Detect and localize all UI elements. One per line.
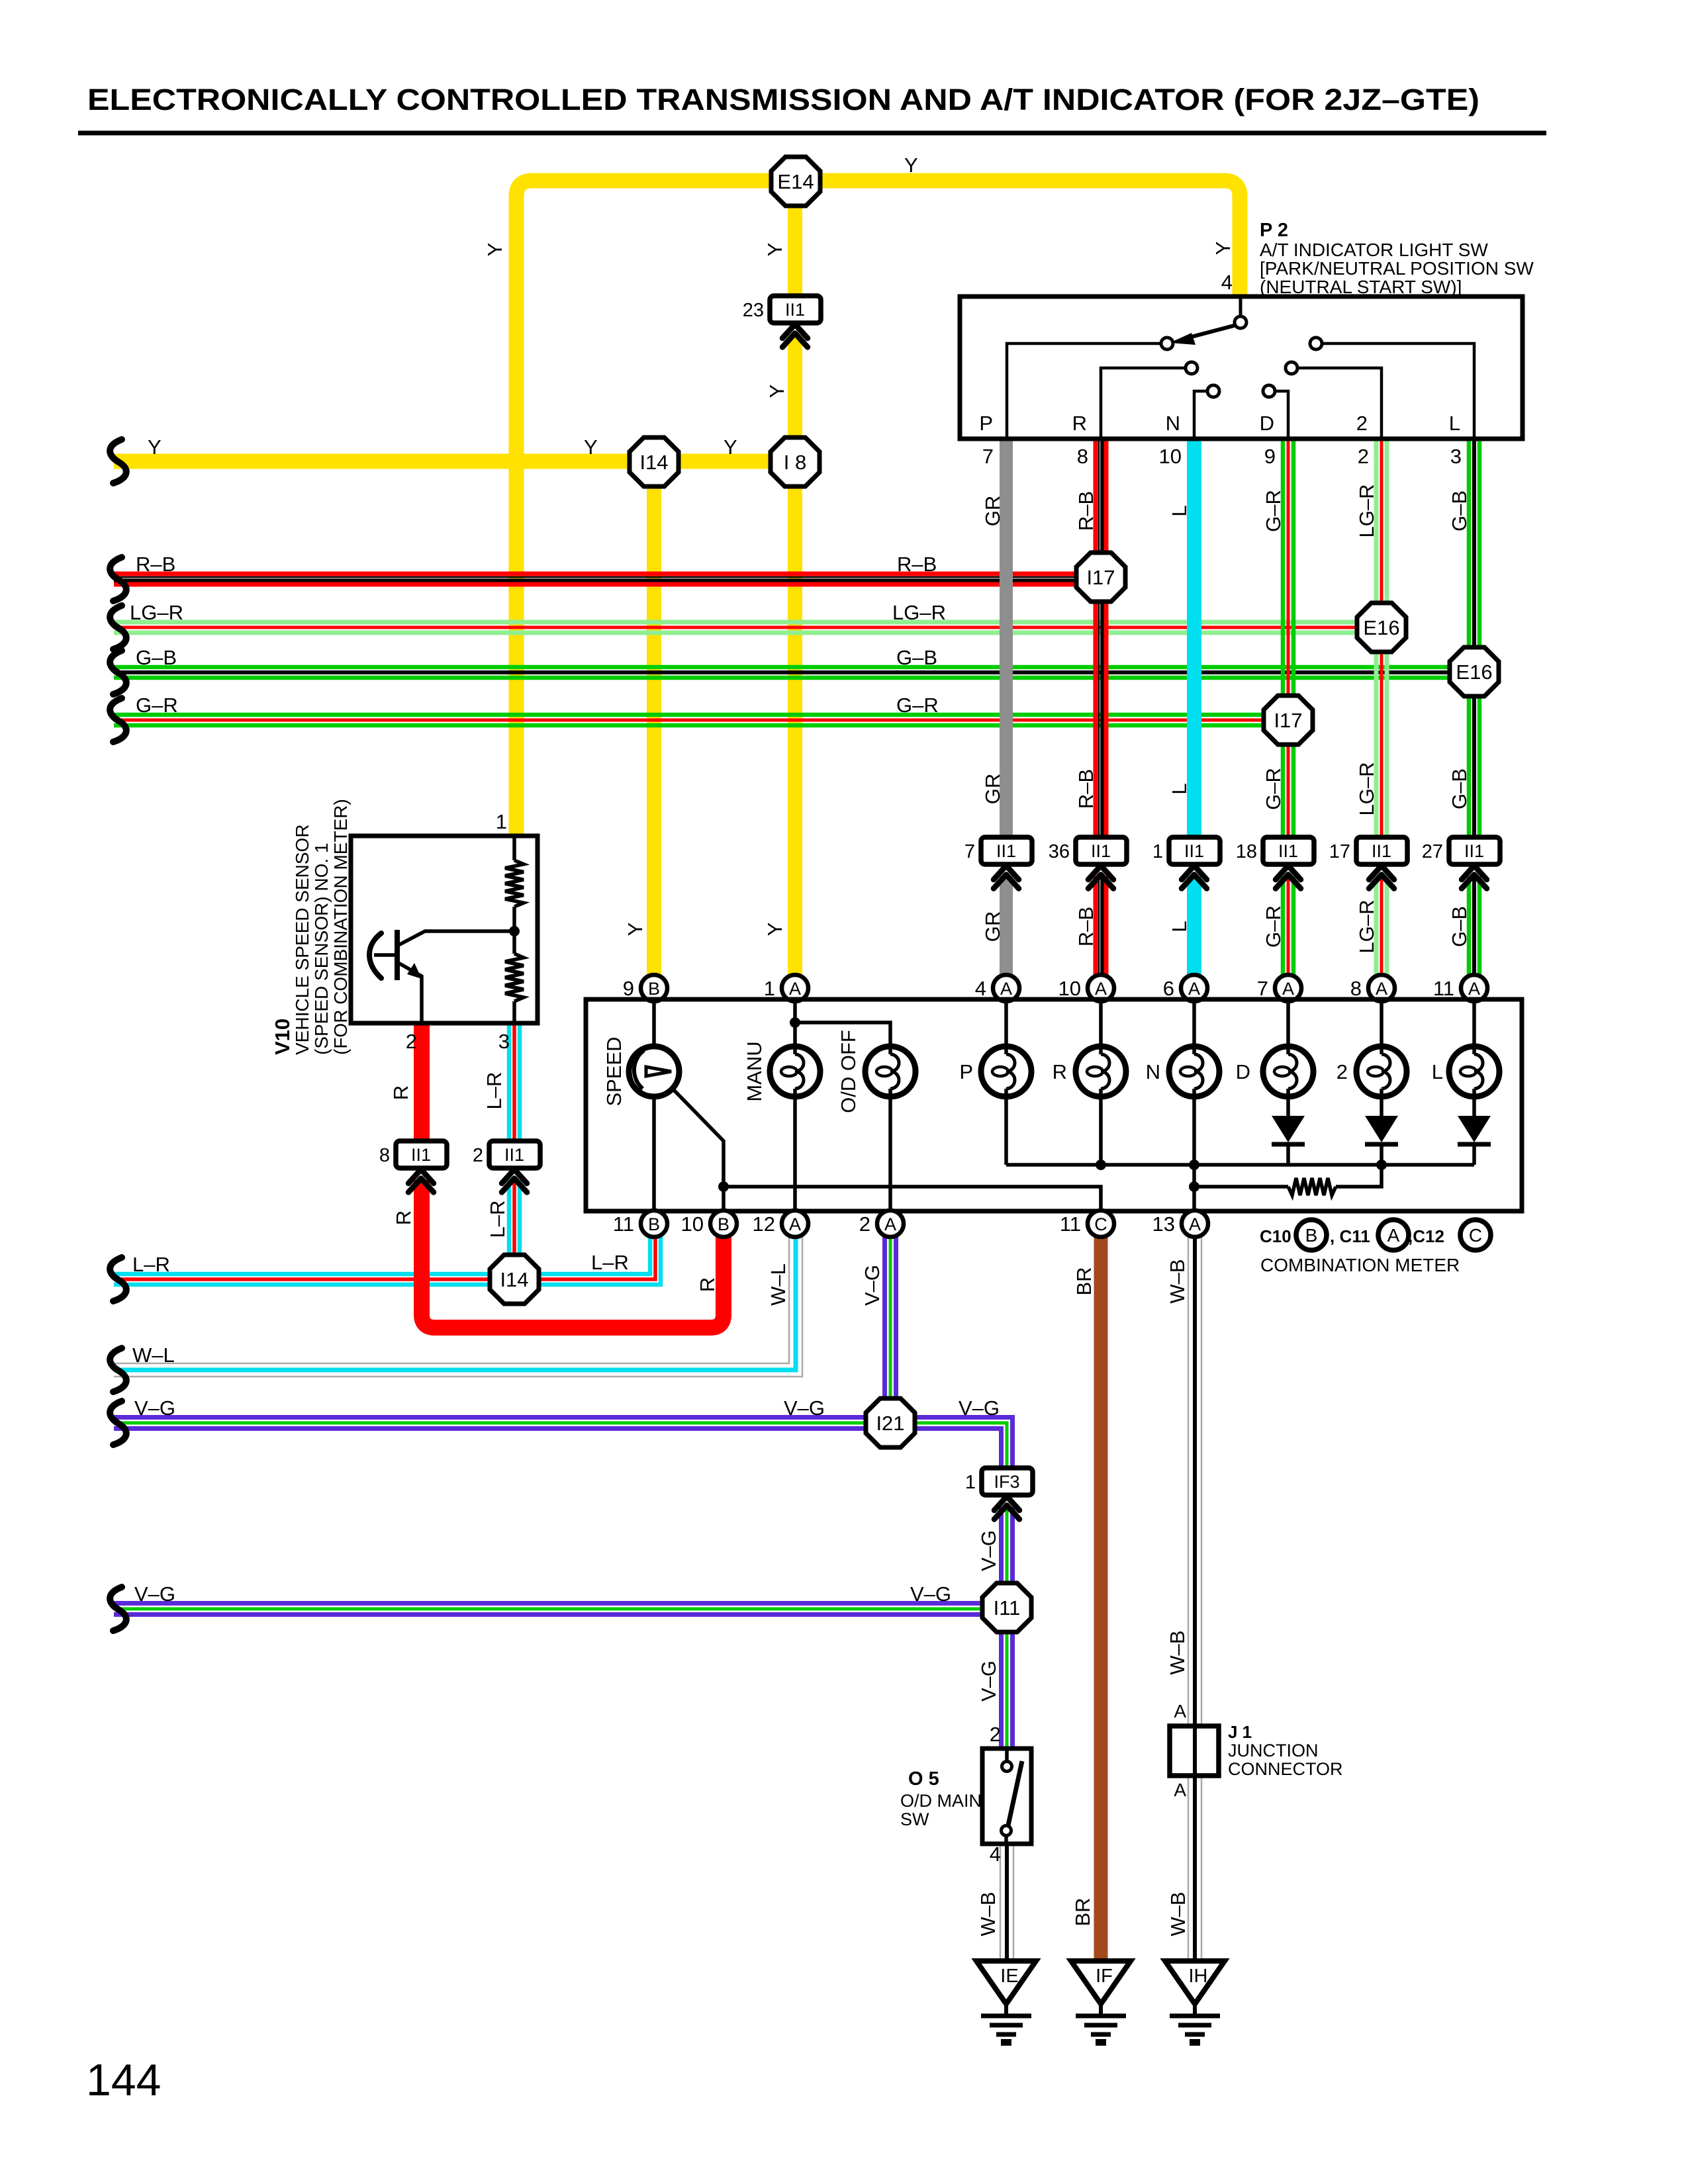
wire break at y=1088 bbox=[110, 698, 126, 742]
svg-text:IF3: IF3 bbox=[994, 1472, 1019, 1492]
wire collector bbox=[399, 931, 514, 945]
connector II1 pin 7 bbox=[981, 837, 1032, 864]
wire Y vertical E14-I8 to meter 1A bbox=[788, 181, 802, 301]
svg-text:ELECTRONICALLY CONTROLLED TRAN: ELECTRONICALLY CONTROLLED TRANSMISSION A… bbox=[87, 83, 1479, 116]
svg-text:V–G: V–G bbox=[784, 1396, 825, 1420]
meter top pin 1 A bbox=[782, 975, 808, 1001]
svg-text:G–R: G–R bbox=[896, 694, 939, 717]
svg-text:1: 1 bbox=[1152, 841, 1163, 862]
svg-text:17: 17 bbox=[1329, 841, 1350, 862]
ground IF bbox=[1071, 1961, 1131, 2004]
wire G-R horizontal bbox=[114, 713, 1288, 717]
svg-text:2: 2 bbox=[1358, 445, 1369, 468]
svg-text:G–B: G–B bbox=[896, 646, 937, 669]
wire W-B vertical meter 13A to IH ground bbox=[1188, 1237, 1190, 1959]
combination meter box bbox=[586, 999, 1522, 1211]
svg-text:II1: II1 bbox=[504, 1145, 524, 1165]
svg-text:W–B: W–B bbox=[976, 1891, 1000, 1936]
meter top pin 4 A bbox=[993, 975, 1019, 1001]
svg-text:18: 18 bbox=[1236, 841, 1257, 862]
junction dot bus bbox=[1096, 1160, 1106, 1170]
P2 contact N bbox=[1207, 385, 1219, 397]
svg-text:4: 4 bbox=[975, 977, 986, 1000]
connector E16 upper bbox=[1357, 603, 1406, 652]
wire break at y=1016 bbox=[110, 651, 126, 694]
svg-text:SPEED: SPEED bbox=[602, 1036, 626, 1106]
svg-text:Y: Y bbox=[904, 154, 918, 177]
svg-text:2: 2 bbox=[406, 1030, 417, 1053]
svg-text:I14: I14 bbox=[500, 1268, 528, 1291]
svg-text:W–L: W–L bbox=[767, 1263, 790, 1306]
wire break at y=697 bbox=[110, 439, 126, 483]
svg-text:R–B: R–B bbox=[1074, 491, 1098, 531]
P2 pivot contact bbox=[1235, 316, 1246, 328]
connector E16 lower bbox=[1450, 647, 1499, 696]
wire lamp to diode bbox=[1472, 1097, 1476, 1116]
svg-text:R: R bbox=[389, 1085, 412, 1100]
svg-text:V–G: V–G bbox=[977, 1530, 1000, 1571]
svg-text:Y: Y bbox=[763, 243, 786, 257]
wire diode to bus bbox=[1286, 1143, 1290, 1165]
svg-text:A: A bbox=[789, 979, 801, 999]
svg-text:C10: C10 bbox=[1260, 1226, 1291, 1246]
svg-text:IE: IE bbox=[1000, 1966, 1018, 1987]
svg-text:2: 2 bbox=[473, 1145, 483, 1166]
svg-text:V10: V10 bbox=[271, 1019, 294, 1055]
connector II1 pin 23 bbox=[770, 296, 821, 323]
svg-text:E16: E16 bbox=[1456, 660, 1492, 684]
svg-text:II1: II1 bbox=[1464, 841, 1484, 861]
svg-text:B: B bbox=[718, 1214, 729, 1234]
svg-text:G–R: G–R bbox=[1262, 905, 1285, 948]
svg-text:R–B: R–B bbox=[1074, 907, 1098, 946]
junction dot MANU branch bbox=[790, 1017, 800, 1028]
connector II1 pin 8 bbox=[396, 1141, 447, 1168]
junction dot V10 bbox=[509, 926, 520, 936]
svg-text:10: 10 bbox=[1159, 445, 1182, 468]
connector II1 pin 36 bbox=[1076, 837, 1127, 864]
svg-text:W–B: W–B bbox=[1166, 1891, 1190, 1936]
wire base bbox=[374, 953, 395, 957]
svg-text:4: 4 bbox=[1221, 271, 1233, 294]
V10 vehicle speed sensor box bbox=[351, 836, 538, 1023]
svg-text:I11: I11 bbox=[994, 1596, 1021, 1619]
diode bbox=[1458, 1116, 1491, 1142]
meter top pin 7 A bbox=[1275, 975, 1301, 1001]
lamp N bbox=[1169, 1046, 1219, 1097]
svg-text:O/D MAIN: O/D MAIN bbox=[900, 1791, 982, 1811]
svg-text:J 1: J 1 bbox=[1228, 1722, 1252, 1742]
svg-text:1: 1 bbox=[965, 1472, 976, 1493]
wire V-G vertical IF3 to O5 bbox=[999, 1507, 1004, 1749]
wire pin to lamp bbox=[1004, 1001, 1008, 1046]
meter top pin 8 A bbox=[1368, 975, 1395, 1001]
svg-text:Y: Y bbox=[1211, 242, 1235, 255]
svg-text:N: N bbox=[1146, 1060, 1160, 1083]
svg-text:2: 2 bbox=[859, 1212, 870, 1236]
svg-text:1: 1 bbox=[764, 977, 775, 1000]
wire break at y=2150 bbox=[110, 1401, 126, 1445]
svg-text:SW: SW bbox=[900, 1809, 929, 1829]
svg-text:Y: Y bbox=[483, 243, 506, 257]
svg-text:10: 10 bbox=[681, 1212, 704, 1236]
svg-text:II1: II1 bbox=[996, 841, 1016, 861]
svg-text:A: A bbox=[1468, 979, 1480, 999]
svg-text:GR: GR bbox=[981, 911, 1004, 942]
svg-text:L–R: L–R bbox=[483, 1072, 506, 1110]
wire branch to O/D OFF lamp bbox=[795, 1023, 890, 1046]
svg-text:R: R bbox=[392, 1210, 415, 1225]
svg-text:O 5: O 5 bbox=[908, 1768, 939, 1790]
title underline bbox=[78, 131, 1546, 136]
svg-text:V–G: V–G bbox=[910, 1582, 951, 1606]
svg-text:27: 27 bbox=[1422, 841, 1443, 862]
wire diode to bus bbox=[1472, 1143, 1476, 1165]
svg-text:E16: E16 bbox=[1363, 616, 1399, 639]
svg-text:G–R: G–R bbox=[1262, 768, 1285, 810]
svg-text:L–R: L–R bbox=[486, 1201, 509, 1238]
svg-text:Y: Y bbox=[765, 385, 788, 398]
svg-text:LG–R: LG–R bbox=[1355, 762, 1378, 816]
transistor in V10 bbox=[395, 930, 400, 980]
svg-text:W–L: W–L bbox=[132, 1343, 175, 1367]
lamp L bbox=[1449, 1046, 1499, 1097]
svg-text:L–R: L–R bbox=[591, 1251, 629, 1274]
svg-text:G–R: G–R bbox=[1262, 490, 1285, 532]
chevron below II1 18 bbox=[1276, 866, 1301, 880]
svg-text:9: 9 bbox=[623, 977, 634, 1000]
svg-text:G–B: G–B bbox=[1448, 490, 1471, 531]
O5 stub bottom bbox=[1004, 1835, 1008, 1844]
J1 junction connector box bbox=[1170, 1726, 1219, 1776]
svg-text:4: 4 bbox=[990, 1843, 1001, 1866]
svg-text:V–G: V–G bbox=[861, 1265, 884, 1306]
svg-text:2: 2 bbox=[990, 1723, 1001, 1746]
wire L-R horizontal to meter 11B bbox=[114, 1237, 650, 1274]
svg-text:LG–R: LG–R bbox=[130, 601, 183, 624]
svg-text:LG–R: LG–R bbox=[1355, 484, 1378, 538]
chevron below II1 36 bbox=[1088, 866, 1113, 880]
meter bottom pin 10 B bbox=[710, 1210, 737, 1237]
svg-text:MANU: MANU bbox=[743, 1041, 766, 1101]
svg-text:W–B: W–B bbox=[1166, 1630, 1189, 1674]
lamp R bbox=[1076, 1046, 1126, 1097]
wire break at y=2431 bbox=[110, 1587, 126, 1631]
svg-text:A: A bbox=[884, 1214, 896, 1234]
svg-text:I14: I14 bbox=[639, 451, 668, 474]
svg-text:GR: GR bbox=[981, 774, 1004, 805]
svg-text:Y: Y bbox=[724, 435, 737, 459]
svg-text:CONNECTOR: CONNECTOR bbox=[1228, 1759, 1343, 1779]
connector I17 upper bbox=[1076, 553, 1125, 602]
wire pin to lamp bbox=[1472, 1001, 1476, 1046]
svg-text:L: L bbox=[1168, 505, 1191, 516]
wire O/D OFF to 2A bbox=[888, 1097, 892, 1209]
svg-text:12: 12 bbox=[753, 1212, 775, 1236]
meter top pin 6 A bbox=[1181, 975, 1207, 1001]
chevron below II1 7 bbox=[994, 866, 1019, 880]
svg-text:W–B: W–B bbox=[1166, 1259, 1189, 1303]
svg-text:BR: BR bbox=[1071, 1897, 1094, 1926]
meter bottom pin 12 A bbox=[782, 1210, 808, 1237]
wire G-B horizontal bbox=[114, 665, 1474, 670]
svg-text:11: 11 bbox=[1433, 977, 1454, 1000]
svg-text:R–B: R–B bbox=[897, 553, 937, 576]
wire resistor lead bottom bbox=[512, 1001, 516, 1023]
chevron below IF3 bbox=[994, 1496, 1019, 1510]
diode bbox=[1365, 1116, 1398, 1142]
wire N lamp to bus and 13A bbox=[1192, 1097, 1196, 1209]
P2 contact D bbox=[1263, 385, 1275, 397]
connector I14 lower bbox=[490, 1255, 539, 1304]
wire speed output to 11C bbox=[724, 1187, 1101, 1209]
svg-text:P 2: P 2 bbox=[1260, 220, 1288, 241]
wire 1A down to MANU bbox=[793, 1001, 797, 1046]
wire R thick red path bbox=[414, 1023, 430, 1146]
svg-text:P: P bbox=[959, 1060, 973, 1083]
svg-text:A: A bbox=[1387, 1225, 1400, 1246]
O5 O/D main switch box bbox=[982, 1749, 1031, 1844]
svg-text:C: C bbox=[1094, 1214, 1107, 1234]
svg-text:A: A bbox=[1376, 979, 1387, 999]
svg-text:LG–R: LG–R bbox=[1355, 900, 1378, 954]
svg-text:I17: I17 bbox=[1086, 566, 1115, 589]
svg-text:Y: Y bbox=[624, 923, 647, 936]
wire L-R vertical from V10 pin 3 bbox=[507, 1023, 512, 1146]
svg-text:R: R bbox=[696, 1277, 719, 1292]
wire pin to lamp bbox=[1380, 1001, 1383, 1046]
wire V-G vertical from meter 2A to I21 bbox=[882, 1237, 887, 1423]
meter bottom pin 2 A bbox=[877, 1210, 904, 1237]
connector II1 pin 27 bbox=[1449, 837, 1500, 864]
wire G-B vertical (L pin 3) bbox=[1467, 439, 1472, 842]
svg-text:A: A bbox=[1000, 979, 1012, 999]
junction dot N resistor bbox=[1189, 1181, 1199, 1192]
resistor R2 in V10 bbox=[505, 954, 524, 1001]
wire Y horizontal middle bbox=[114, 454, 795, 469]
connector II1 pin 17 bbox=[1356, 837, 1407, 864]
wire GR vertical (P pin 7) bbox=[1000, 439, 1013, 842]
wire pin to lamp bbox=[1286, 1001, 1290, 1046]
connector I17 lower bbox=[1264, 696, 1313, 745]
svg-text:G–R: G–R bbox=[136, 694, 178, 717]
svg-text:IF: IF bbox=[1096, 1966, 1113, 1987]
connector II1 pin 18 bbox=[1263, 837, 1314, 864]
O5 stub top bbox=[1005, 1749, 1009, 1761]
lamp O/D OFF bbox=[865, 1046, 915, 1097]
wire G-B vertical lower bbox=[1467, 876, 1472, 976]
svg-text:(FOR COMBINATION METER): (FOR COMBINATION METER) bbox=[330, 799, 351, 1055]
svg-text:L: L bbox=[1168, 921, 1191, 932]
wire break at y=2070 bbox=[110, 1348, 126, 1392]
wire 9B to speed gauge bbox=[652, 1001, 656, 1046]
junction dot bus bbox=[1376, 1160, 1387, 1170]
svg-text:2: 2 bbox=[1356, 412, 1368, 435]
svg-text:II1: II1 bbox=[1372, 841, 1391, 861]
O5 blade bbox=[1008, 1761, 1022, 1825]
connector E14 bbox=[771, 157, 820, 206]
svg-text:R: R bbox=[1072, 412, 1087, 435]
lamp P bbox=[981, 1046, 1031, 1097]
wire lamp common bus bbox=[1006, 1163, 1474, 1167]
wire G-R vertical (D pin 9) bbox=[1281, 439, 1286, 842]
wire G-R vertical lower bbox=[1281, 876, 1286, 976]
svg-text:VEHICLE SPEED SENSOR: VEHICLE SPEED SENSOR bbox=[292, 824, 312, 1055]
svg-text:23: 23 bbox=[743, 300, 764, 321]
wire P lamp to bus bbox=[1004, 1097, 1008, 1165]
svg-text:, C11: , C11 bbox=[1330, 1226, 1370, 1246]
chevron below II1 8 bbox=[408, 1169, 434, 1183]
svg-text:R: R bbox=[1053, 1060, 1067, 1083]
wire Y vertical I14 to meter 9B bbox=[647, 461, 661, 975]
wire LG-R vertical (2 pin 2) bbox=[1374, 439, 1379, 842]
wire R-B horizontal bbox=[114, 572, 1101, 576]
meter bottom pin 11 C bbox=[1088, 1210, 1114, 1237]
svg-text:II1: II1 bbox=[785, 300, 805, 320]
svg-text:R–B: R–B bbox=[1074, 769, 1098, 809]
svg-text:(SPEED SENSOR) NO. 1: (SPEED SENSOR) NO. 1 bbox=[311, 842, 332, 1055]
diode bbox=[1272, 1116, 1305, 1142]
svg-text:A: A bbox=[1095, 979, 1107, 999]
connector IF3 pin 1 bbox=[982, 1468, 1033, 1495]
wire break at y=1933 bbox=[110, 1257, 126, 1301]
svg-text:9: 9 bbox=[1264, 445, 1276, 468]
chevron below II1 2 bbox=[502, 1169, 527, 1183]
svg-text:LG–R: LG–R bbox=[892, 601, 946, 624]
wire V-G horizontal through I21 to IF3 bbox=[114, 1418, 1013, 1474]
lamp 2 bbox=[1356, 1046, 1407, 1097]
wire lamp to diode bbox=[1286, 1097, 1290, 1116]
svg-text:E14: E14 bbox=[777, 170, 814, 193]
svg-text:II1: II1 bbox=[1184, 841, 1204, 861]
connector I14 bbox=[630, 437, 679, 486]
wire L vertical (N pin 10) bbox=[1187, 439, 1201, 842]
svg-text:L: L bbox=[1168, 783, 1191, 794]
lamp D bbox=[1263, 1046, 1313, 1097]
wire Y main top run bbox=[516, 181, 1240, 836]
svg-text:11: 11 bbox=[613, 1212, 634, 1236]
wire LG-R horizontal bbox=[114, 620, 1382, 625]
svg-text:G–B: G–B bbox=[1448, 768, 1471, 809]
svg-text:,C12: ,C12 bbox=[1408, 1226, 1444, 1246]
meter top pin 11 A bbox=[1461, 975, 1487, 1001]
svg-text:L–R: L–R bbox=[132, 1253, 170, 1276]
svg-text:B: B bbox=[1305, 1225, 1318, 1246]
meter bottom pin 11 B bbox=[641, 1210, 667, 1237]
emitter arrowhead bbox=[407, 963, 422, 979]
svg-text:V–G: V–G bbox=[977, 1661, 1000, 1702]
svg-text:Y: Y bbox=[584, 435, 598, 459]
svg-text:V–G: V–G bbox=[134, 1396, 175, 1420]
wire LG-R vertical lower bbox=[1374, 876, 1379, 976]
svg-text:B: B bbox=[648, 979, 660, 999]
svg-text:V–G: V–G bbox=[134, 1582, 175, 1606]
wire N to resistor bbox=[1194, 1185, 1288, 1189]
svg-text:V–G: V–G bbox=[959, 1396, 1000, 1420]
svg-text:GR: GR bbox=[981, 496, 1004, 527]
wire speed gauge to 11B bbox=[652, 1097, 656, 1209]
wire R-B vertical (R pin 8) bbox=[1094, 439, 1098, 842]
wire speed needle output diagonal to 10B bbox=[673, 1089, 724, 1209]
connector I11 bbox=[982, 1583, 1031, 1632]
wire MANU to 12A bbox=[793, 1097, 797, 1209]
P2 selector arm with arrowhead bbox=[1186, 325, 1237, 338]
svg-text:10: 10 bbox=[1058, 977, 1081, 1000]
svg-text:COMBINATION METER: COMBINATION METER bbox=[1260, 1255, 1460, 1275]
chevron below II1 1 bbox=[1182, 866, 1207, 880]
wire R-B vertical lower bbox=[1094, 876, 1098, 976]
meter top pin 10 A bbox=[1088, 975, 1114, 1001]
svg-text:[PARK/NEUTRAL POSITION SW: [PARK/NEUTRAL POSITION SW bbox=[1260, 258, 1534, 279]
svg-text:I21: I21 bbox=[876, 1412, 904, 1435]
svg-text:2: 2 bbox=[1336, 1060, 1348, 1083]
svg-text:G–B: G–B bbox=[1448, 906, 1471, 947]
svg-text:7: 7 bbox=[1257, 977, 1268, 1000]
resistor R1 in V10 bbox=[505, 860, 524, 907]
svg-text:A: A bbox=[1174, 1701, 1186, 1721]
svg-text:BR: BR bbox=[1072, 1267, 1096, 1295]
svg-text:A/T INDICATOR LIGHT SW: A/T INDICATOR LIGHT SW bbox=[1260, 240, 1488, 260]
P2 contact P bbox=[1161, 338, 1173, 349]
svg-text:B: B bbox=[648, 1214, 660, 1234]
resistor in meter bbox=[1288, 1178, 1336, 1195]
svg-text:G–B: G–B bbox=[136, 646, 177, 669]
wire resistor lead top bbox=[512, 836, 516, 860]
junction dot bus bbox=[1189, 1160, 1199, 1170]
svg-text:13: 13 bbox=[1152, 1212, 1175, 1236]
wire W-L horizontal to meter 12A bbox=[114, 1237, 789, 1363]
wire pin to lamp bbox=[1192, 1001, 1196, 1046]
svg-text:I 8: I 8 bbox=[784, 451, 806, 474]
wire break at y=948 bbox=[110, 606, 126, 649]
svg-text:C: C bbox=[1469, 1225, 1482, 1246]
sensor pickup arc bbox=[369, 933, 381, 978]
O5 contact bottom bbox=[1002, 1826, 1011, 1836]
wire V-G horizontal lower to I11 bbox=[114, 1601, 1007, 1606]
wire diode to bus bbox=[1380, 1143, 1383, 1165]
meter top pin 9 B bbox=[641, 975, 667, 1001]
svg-text:D: D bbox=[1260, 412, 1274, 435]
svg-text:R–B: R–B bbox=[136, 553, 175, 576]
svg-text:7: 7 bbox=[964, 841, 975, 862]
svg-text:N: N bbox=[1166, 412, 1180, 435]
svg-text:A: A bbox=[1174, 1780, 1186, 1800]
chevron below II1 17 bbox=[1369, 866, 1394, 880]
svg-text:D: D bbox=[1236, 1060, 1250, 1083]
wire W-B vertical O5 to IE ground bbox=[1000, 1844, 1002, 1959]
wire resistor to bus bbox=[1336, 1165, 1382, 1187]
wire L-R vertical lower bbox=[507, 1180, 512, 1279]
wire R lamp to bus bbox=[1099, 1097, 1103, 1165]
connector I21 bbox=[866, 1398, 915, 1447]
connector II1 pin 2 bbox=[489, 1141, 540, 1168]
wire BR vertical bbox=[1094, 1237, 1108, 1959]
chevron below II1 23 bbox=[782, 324, 808, 338]
svg-text:II1: II1 bbox=[1278, 841, 1298, 861]
wire break at y=875 bbox=[110, 557, 126, 601]
P2 contact R bbox=[1186, 362, 1197, 374]
svg-text:144: 144 bbox=[86, 2055, 161, 2105]
P2 contact 2 bbox=[1286, 362, 1297, 374]
svg-text:1: 1 bbox=[496, 810, 507, 833]
wire P2 common stub bbox=[1239, 296, 1243, 317]
wire between resistors bbox=[512, 907, 516, 954]
svg-text:8: 8 bbox=[1077, 445, 1088, 468]
svg-text:II1: II1 bbox=[1091, 841, 1111, 861]
svg-text:3: 3 bbox=[498, 1030, 510, 1053]
P2 contact L bbox=[1310, 338, 1322, 349]
svg-text:3: 3 bbox=[1450, 445, 1462, 468]
